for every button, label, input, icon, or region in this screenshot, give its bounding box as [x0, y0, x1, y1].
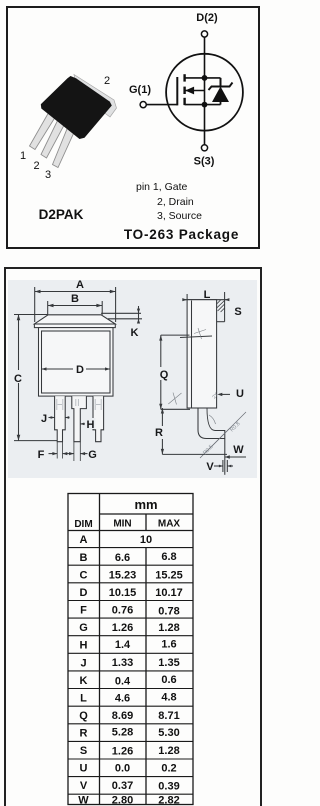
A arrows	[35, 290, 41, 294]
svg-text:A: A	[80, 534, 88, 546]
side body inner line	[191, 301, 193, 408]
lead left	[55, 396, 66, 442]
channel segment bottom	[183, 98, 185, 105]
channel segment middle	[183, 87, 185, 94]
wire gate	[146, 104, 177, 106]
tab strip	[224, 300, 226, 322]
svg-text:MIN: MIN	[113, 519, 131, 530]
source terminal circle	[201, 145, 207, 151]
W arrow	[225, 455, 230, 458]
svg-text:K: K	[80, 675, 88, 687]
top box frame	[7, 7, 259, 248]
svg-text:D: D	[76, 364, 84, 376]
H arrow	[80, 423, 84, 426]
svg-text:G: G	[79, 622, 88, 634]
svg-text:2: 2	[33, 160, 39, 172]
front view dimension labels	[14, 279, 139, 461]
svg-text:8.71: 8.71	[158, 710, 179, 722]
package tab trapezoid	[34, 315, 115, 324]
svg-text:F: F	[38, 449, 45, 461]
svg-text:TO-263 Package: TO-263 Package	[124, 227, 239, 242]
node drain junction	[202, 75, 208, 81]
DIM column divider	[99, 494, 101, 805]
svg-text:J: J	[41, 413, 47, 425]
lead right	[93, 396, 104, 442]
D2PAK package body	[30, 75, 117, 168]
draft angle annotation top	[194, 328, 206, 339]
wire drain to channel	[185, 77, 221, 79]
dim L top line	[183, 292, 228, 300]
dim A line	[35, 287, 116, 322]
Q dim line	[161, 335, 190, 409]
V dim ticks	[214, 460, 233, 472]
svg-text:mm: mm	[134, 497, 157, 512]
S hatch	[217, 300, 225, 312]
svg-text:0.39: 0.39	[158, 781, 179, 793]
V arrows	[219, 465, 223, 468]
F G dim line	[49, 453, 89, 455]
pin number labels for package	[20, 75, 110, 181]
svg-text:D(2): D(2)	[196, 12, 218, 24]
svg-text:0.4: 0.4	[115, 676, 131, 688]
body arrow	[185, 87, 204, 95]
L arrows	[182, 298, 187, 301]
Q label halo	[158, 367, 170, 380]
svg-text:MAX: MAX	[158, 519, 181, 530]
svg-text:G: G	[88, 449, 97, 461]
svg-text:0.6: 0.6	[161, 674, 176, 686]
svg-text:A: A	[76, 279, 84, 291]
inner bend radius arc	[209, 415, 216, 424]
svg-text:V: V	[206, 461, 214, 473]
F extension lines	[57, 442, 62, 459]
J label halo	[39, 412, 48, 423]
svg-text:3: 3	[45, 169, 51, 181]
H label halo	[86, 418, 96, 429]
svg-text:B: B	[80, 552, 88, 564]
draft angle annotation bottom	[168, 393, 181, 405]
svg-text:F: F	[80, 605, 87, 617]
svg-text:10: 10	[140, 534, 152, 546]
lead center	[72, 396, 87, 442]
C label halo	[13, 370, 24, 383]
svg-text:10.15: 10.15	[109, 587, 137, 599]
svg-text:W: W	[78, 795, 89, 806]
svg-text:S(3): S(3)	[194, 156, 215, 168]
node source junction	[202, 102, 208, 108]
svg-text:K: K	[131, 327, 139, 339]
svg-text:S: S	[234, 306, 241, 318]
svg-text:R: R	[80, 728, 88, 740]
molded body	[41, 76, 112, 139]
J arrows	[51, 416, 55, 419]
body diode D1 (zener)	[209, 78, 233, 105]
svg-text:Q: Q	[79, 710, 88, 722]
svg-text:10.17: 10.17	[155, 587, 183, 599]
svg-text:1.33: 1.33	[112, 657, 133, 669]
svg-text:1: 1	[20, 150, 26, 162]
R dim line	[162, 408, 227, 454]
lead 2	[41, 118, 66, 159]
D arrows	[42, 367, 47, 370]
svg-text:R: R	[155, 427, 163, 439]
svg-text:1.26: 1.26	[112, 746, 133, 758]
body outer	[39, 328, 114, 397]
middle box frame	[5, 268, 261, 806]
H dim marks	[80, 423, 85, 425]
B arrows	[48, 304, 54, 308]
svg-text:2: 2	[104, 75, 110, 87]
lead bend	[198, 408, 225, 475]
svg-text:1.26: 1.26	[112, 622, 133, 634]
lead stamp marks	[57, 399, 101, 410]
svg-text:0.0: 0.0	[115, 763, 130, 775]
C dim line	[14, 315, 62, 441]
svg-text:L: L	[80, 693, 87, 705]
lead 1	[30, 111, 57, 150]
svg-text:0.2: 0.2	[161, 763, 176, 775]
svg-text:G(1): G(1)	[129, 84, 151, 96]
tab band	[34, 324, 115, 328]
bend radius annotations	[200, 412, 246, 458]
svg-text:5.28: 5.28	[112, 727, 133, 739]
J dim marks	[49, 417, 70, 419]
drain terminal circle	[201, 31, 207, 37]
pin list text	[136, 181, 202, 222]
svg-text:H: H	[87, 419, 95, 431]
svg-text:0.76: 0.76	[112, 605, 133, 617]
K extension lines	[101, 312, 141, 314]
svg-text:pin 1, Gate: pin 1, Gate	[136, 181, 188, 193]
channel segment top	[183, 74, 185, 81]
K arrows	[137, 309, 140, 314]
lead 3	[53, 124, 77, 168]
body inner line	[42, 331, 111, 393]
svg-text:J: J	[80, 658, 86, 670]
R arrows	[161, 408, 164, 414]
svg-text:3, Source: 3, Source	[157, 210, 202, 222]
table outer border	[68, 494, 193, 805]
table row lines	[68, 548, 193, 795]
table body text	[78, 534, 182, 806]
front view arrowheads	[17, 290, 140, 456]
side body outline	[187, 300, 217, 408]
svg-text:U: U	[80, 763, 88, 775]
G arrows	[69, 452, 74, 455]
svg-text:15.25: 15.25	[155, 570, 183, 582]
header bottom	[68, 530, 193, 532]
drawing tint background	[8, 280, 257, 478]
svg-text:15.23: 15.23	[109, 570, 137, 582]
svg-text:5.30: 5.30	[158, 727, 179, 739]
svg-text:DIM: DIM	[74, 519, 92, 530]
svg-text:0.37: 0.37	[112, 780, 133, 792]
svg-text:C: C	[14, 373, 22, 385]
W dim line	[225, 456, 246, 458]
wire drain	[204, 37, 206, 144]
svg-text:0.78: 0.78	[158, 606, 179, 618]
G label halo	[88, 448, 98, 459]
svg-text:1.6: 1.6	[161, 639, 176, 651]
mold parting line	[180, 336, 212, 338]
svg-text:6.6: 6.6	[115, 552, 130, 564]
Q arrows	[159, 335, 162, 341]
svg-text:D2PAK: D2PAK	[39, 207, 84, 222]
svg-text:H: H	[80, 640, 88, 652]
wire source to channel	[185, 104, 221, 106]
svg-text:2, Drain: 2, Drain	[157, 196, 194, 208]
F arrows	[52, 452, 57, 455]
U arrow	[219, 393, 230, 395]
svg-text:L: L	[204, 289, 211, 301]
svg-text:2.80: 2.80	[112, 795, 133, 806]
svg-text:1.28: 1.28	[158, 622, 179, 634]
side view arrowheads	[159, 298, 231, 467]
svg-text:V: V	[80, 780, 88, 792]
C arrows	[17, 315, 21, 321]
svg-text:W: W	[233, 444, 244, 456]
symbol circle U1	[166, 54, 243, 131]
svg-text:U: U	[236, 388, 244, 400]
svg-text:1.4: 1.4	[115, 639, 131, 651]
dim B line	[48, 301, 102, 315]
G extension lines	[74, 442, 80, 461]
MIN MAX divider	[145, 514, 147, 531]
svg-text:B: B	[71, 293, 79, 305]
U arrow	[217, 393, 222, 396]
gate plate	[176, 77, 178, 105]
svg-text:Q: Q	[160, 369, 169, 381]
svg-text:8.69: 8.69	[112, 710, 133, 722]
svg-text:D: D	[80, 587, 88, 599]
mm header divider	[100, 513, 194, 515]
table header text	[74, 497, 180, 530]
svg-text:1.35: 1.35	[158, 657, 179, 669]
svg-text:4.6: 4.6	[115, 693, 130, 705]
gate terminal circle	[140, 102, 146, 108]
svg-text:C: C	[80, 570, 88, 582]
svg-text:6.8: 6.8	[161, 551, 176, 563]
D dim line	[42, 368, 74, 370]
svg-text:S: S	[80, 745, 87, 757]
svg-text:1.28: 1.28	[158, 745, 179, 757]
svg-text:4.8: 4.8	[161, 692, 176, 704]
tab sliver (metal)	[74, 75, 117, 118]
R label halo	[155, 426, 167, 439]
bend radius rotated notes	[202, 391, 241, 456]
side view dimension labels	[155, 289, 244, 473]
svg-text:2.82: 2.82	[158, 795, 179, 806]
F label halo	[37, 448, 46, 459]
